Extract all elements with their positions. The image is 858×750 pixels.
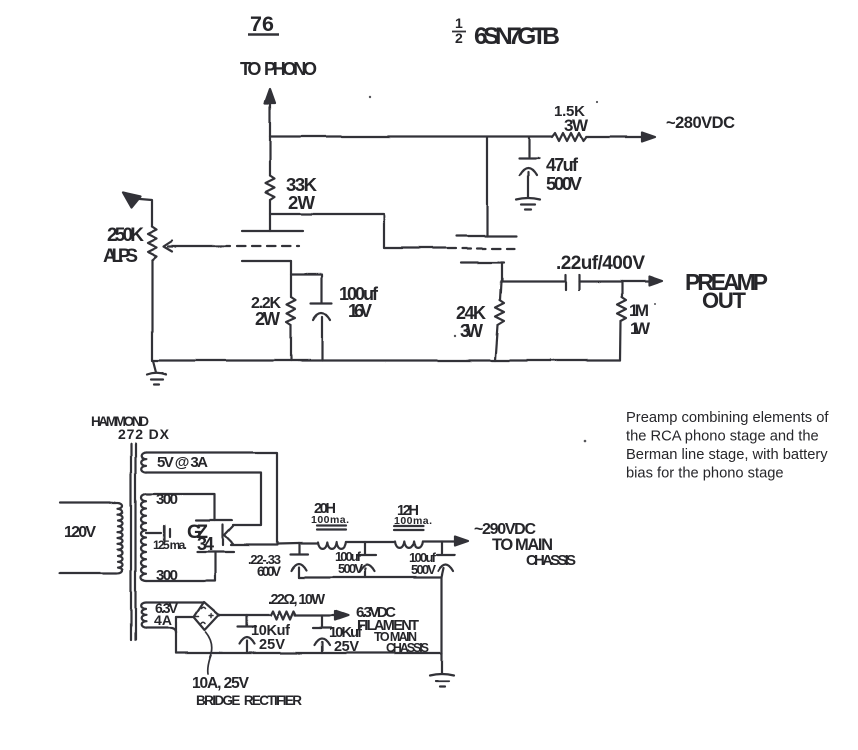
svg-text:BRIDGE RECTIFIER: BRIDGE RECTIFIER — [196, 693, 302, 708]
svg-text:Preamp combining elements of: Preamp combining elements of — [626, 410, 829, 426]
svg-text:bias for the phono stage: bias for the phono stage — [626, 466, 784, 482]
svg-text:~280VDC: ~280VDC — [666, 114, 735, 132]
svg-text:125 ma.: 125 ma. — [153, 538, 187, 552]
svg-text:272 DX: 272 DX — [118, 426, 170, 442]
svg-text:Berman line stage, with batter: Berman line stage, with battery — [626, 447, 828, 463]
svg-text:25V: 25V — [259, 637, 285, 653]
svg-text:CHASSIS: CHASSIS — [386, 641, 429, 655]
svg-text:.22uf/400V: .22uf/400V — [556, 253, 645, 274]
svg-text:24K: 24K — [456, 303, 486, 323]
svg-text:5V @ 3A: 5V @ 3A — [157, 454, 208, 471]
svg-text:CHASSIS: CHASSIS — [526, 552, 576, 569]
svg-text:1M: 1M — [629, 301, 649, 320]
svg-text:ALPS: ALPS — [103, 246, 138, 267]
svg-text:16V: 16V — [348, 301, 372, 321]
svg-text:250K: 250K — [107, 225, 144, 246]
svg-text:3W: 3W — [564, 116, 589, 135]
svg-text:34: 34 — [197, 534, 214, 554]
svg-text:25V: 25V — [334, 639, 359, 655]
svg-text:500V: 500V — [411, 562, 436, 577]
svg-text:TO PHONO: TO PHONO — [240, 59, 317, 79]
svg-text:500V: 500V — [546, 173, 583, 194]
svg-text:100ma.: 100ma. — [394, 515, 432, 527]
svg-text:OUT: OUT — [702, 288, 747, 313]
svg-text:100ma.: 100ma. — [311, 514, 349, 526]
svg-text:10A, 25V: 10A, 25V — [192, 675, 250, 692]
svg-text:300: 300 — [156, 491, 178, 508]
svg-text:2W: 2W — [288, 192, 316, 213]
svg-text:47uf: 47uf — [546, 155, 579, 175]
svg-text:3W: 3W — [460, 321, 483, 341]
svg-text:600V: 600V — [257, 564, 281, 579]
svg-text:.22Ω, 10W: .22Ω, 10W — [268, 592, 325, 608]
svg-text:500V: 500V — [338, 561, 363, 576]
svg-text:4A: 4A — [154, 612, 172, 628]
svg-text:1: 1 — [455, 15, 463, 31]
svg-text:120V: 120V — [64, 524, 96, 541]
svg-text:2W: 2W — [255, 309, 280, 329]
svg-text:76: 76 — [250, 12, 274, 36]
svg-text:1W: 1W — [630, 319, 651, 338]
svg-text:300: 300 — [156, 567, 178, 584]
svg-text:6SN7GTB: 6SN7GTB — [474, 23, 560, 50]
svg-text:the RCA phono stage and the: the RCA phono stage and the — [626, 429, 819, 445]
